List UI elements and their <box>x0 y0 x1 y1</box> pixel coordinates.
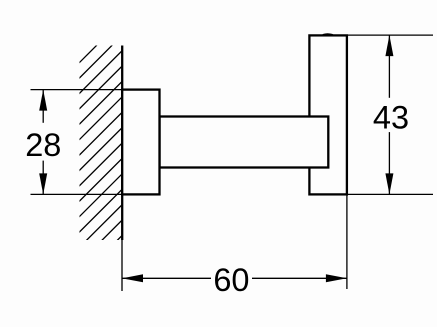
svg-text:28: 28 <box>25 127 61 163</box>
svg-text:60: 60 <box>213 262 249 298</box>
svg-text:43: 43 <box>373 99 409 135</box>
